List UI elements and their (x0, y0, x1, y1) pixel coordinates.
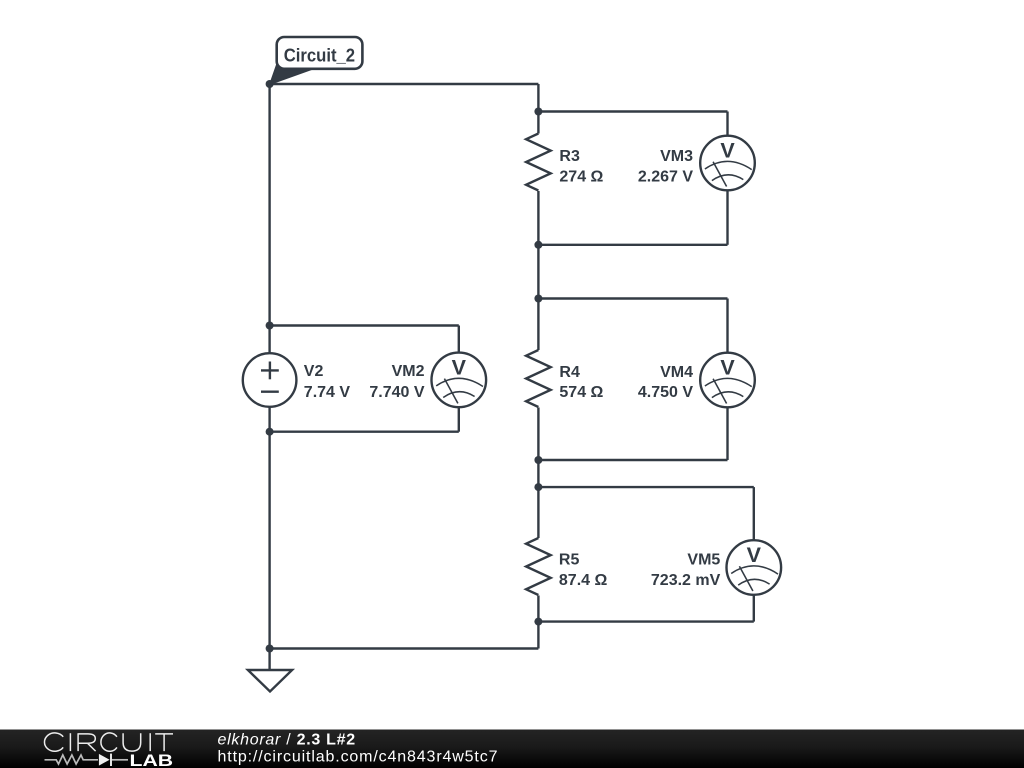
svg-text:VM2: VM2 (392, 363, 425, 380)
svg-text:VM3: VM3 (660, 148, 693, 165)
svg-text:87.4 Ω: 87.4 Ω (559, 572, 608, 589)
svg-text:4.750 V: 4.750 V (638, 384, 693, 401)
svg-text:Circuit_2: Circuit_2 (284, 46, 355, 66)
svg-text:R3: R3 (559, 148, 580, 165)
svg-text:R5: R5 (559, 552, 580, 569)
svg-text:723.2 mV: 723.2 mV (651, 572, 721, 589)
svg-text:V2: V2 (304, 363, 324, 380)
svg-text:elkhorar / 2.3 L#2: elkhorar / 2.3 L#2 (218, 732, 356, 749)
svg-text:LAB: LAB (130, 751, 174, 768)
svg-text:274 Ω: 274 Ω (559, 168, 603, 185)
svg-text:7.74 V: 7.74 V (304, 384, 351, 401)
svg-text:7.740 V: 7.740 V (369, 384, 424, 401)
svg-text:R4: R4 (559, 364, 580, 381)
svg-text:VM5: VM5 (687, 552, 720, 569)
svg-text:574 Ω: 574 Ω (559, 384, 603, 401)
svg-text:2.267 V: 2.267 V (638, 168, 693, 185)
svg-text:http://circuitlab.com/c4n843r4: http://circuitlab.com/c4n843r4w5tc7 (218, 748, 498, 765)
svg-text:VM4: VM4 (660, 364, 693, 381)
